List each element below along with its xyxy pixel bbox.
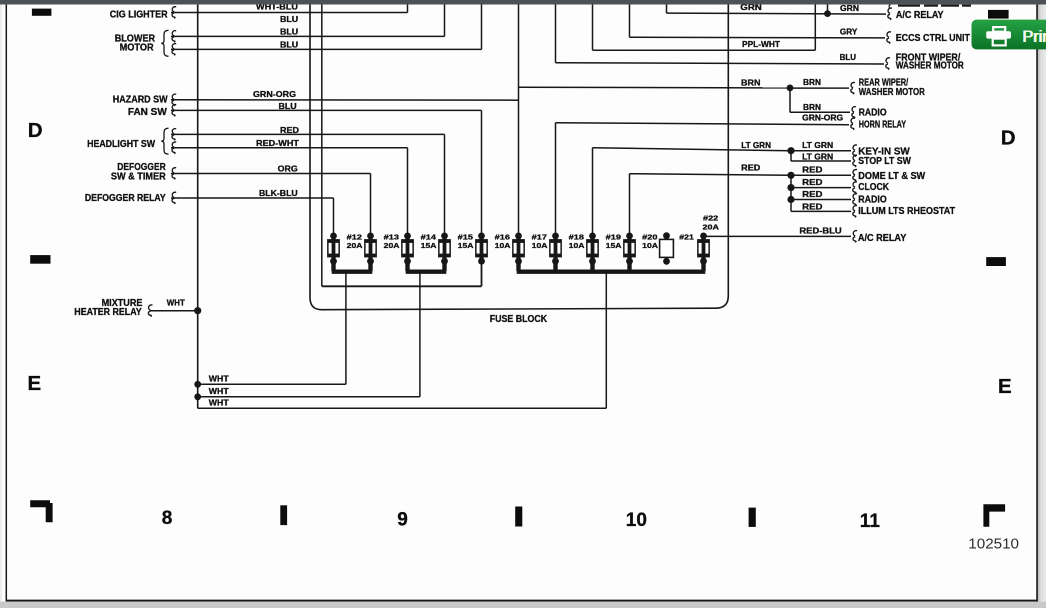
registration mark top left	[32, 9, 52, 16]
scan page left outer gray strip	[0, 5, 2, 609]
junction dot BRN	[787, 85, 794, 92]
svg-text:GRN-ORG: GRN-ORG	[253, 89, 296, 99]
svg-text:LT GRN: LT GRN	[802, 152, 833, 162]
connector hook FAN SW	[172, 105, 176, 117]
wire: LT GRN branch vertical	[790, 151, 792, 161]
wire: BLOWER MOTOR row2 vertical up at x=481.5	[481, 5, 483, 50]
junction dot WHT row2	[194, 393, 201, 400]
wire: MIXTURE HEATER RELAY WHT row	[150, 310, 198, 312]
svg-text:#21: #21	[679, 233, 694, 242]
svg-text:15A: 15A	[606, 241, 622, 250]
connector hook A/C RELAY	[888, 8, 892, 20]
connector hook FRONT WIPER/WASHER MOTOR	[886, 58, 890, 70]
junction dot WHT row1	[194, 381, 201, 388]
wire: BRN branch vertical	[789, 88, 791, 112]
svg-text:RED-WHT: RED-WHT	[256, 138, 299, 148]
svg-text:BRN: BRN	[803, 102, 821, 112]
wire: RADIO BRN row	[790, 111, 850, 113]
svg-text:DEFOGGER RELAY: DEFOGGER RELAY	[85, 193, 166, 204]
fuse #16 symbol	[475, 233, 488, 265]
corner bracket bottom right	[983, 504, 1005, 526]
bus bar fuses #14-#15	[406, 270, 447, 274]
junction dot RED DOME	[787, 172, 794, 179]
wire: A/C RELAY GRN row	[666, 5, 668, 14]
wire: RED branch vertical	[790, 175, 792, 211]
svg-text:RED: RED	[802, 177, 822, 187]
svg-text:GRN-ORG: GRN-ORG	[802, 113, 843, 123]
brace HEADLIGHT SW	[161, 128, 168, 154]
connector hook STOP LT SW	[853, 155, 857, 167]
junction dot LT GRN	[787, 147, 794, 154]
svg-text:RED: RED	[802, 201, 822, 211]
fuse socket #21 (empty)	[660, 232, 674, 264]
brace BLOWER MOTOR	[161, 30, 168, 56]
connector hook A/C RELAY 2	[853, 231, 857, 243]
svg-text:WHT: WHT	[209, 398, 229, 408]
connector hook DEFOGGER RELAY	[172, 192, 176, 204]
svg-text:20A: 20A	[703, 223, 720, 232]
connector hook HORN RELAY	[851, 118, 855, 130]
wire: DEFOGGER RELAY BLK-BLU row	[171, 197, 334, 199]
connector hook BLOWER MOTOR pin 2	[172, 44, 176, 56]
top dark bar	[0, 0, 1046, 5]
svg-text:WASHER MOTOR: WASHER MOTOR	[896, 60, 964, 71]
svg-text:CLOCK: CLOCK	[858, 182, 889, 193]
svg-text:10A: 10A	[532, 241, 548, 250]
wire: WHT row2 vertical up to fuse bus 14-15	[419, 273, 421, 397]
wire: BLK-BLU vertical down to fuse #12	[333, 198, 335, 233]
printer icon	[986, 27, 1011, 45]
wire: BLOWER MOTOR BLU row 2	[171, 48, 482, 50]
svg-text:ORG: ORG	[278, 164, 298, 174]
wire: CIG LIGHTER vertical up at x=407.5	[407, 5, 409, 13]
svg-text:RED: RED	[280, 125, 299, 135]
svg-text:RED-BLU: RED-BLU	[799, 226, 841, 236]
cut-off label fragment top right	[898, 5, 920, 7]
scan page bottom border line	[6, 600, 1038, 602]
svg-text:LT GRN: LT GRN	[741, 140, 771, 150]
svg-text:FAN SW: FAN SW	[128, 107, 168, 118]
svg-text:102510: 102510	[968, 536, 1019, 553]
svg-text:MOTOR: MOTOR	[120, 42, 154, 53]
wire: WHT row3 vertical up to main fuse bus	[605, 273, 607, 408]
wire: DEFOGGER SW & TIMER ORG row	[171, 173, 371, 175]
junction dot RED CLOCK	[787, 184, 794, 191]
wire: WHT row 2 bottom	[198, 396, 420, 398]
fuse #12 symbol	[327, 233, 340, 265]
wire: RED vertical down to fuse #15	[444, 134, 446, 233]
wire: fuse #17 column from top (BRN/GRN-ORG feed)	[518, 5, 520, 234]
wire: STOP LT SW LT GRN row	[791, 160, 851, 162]
svg-text:15A: 15A	[458, 241, 474, 250]
svg-text:BLU: BLU	[280, 27, 298, 37]
wire: FRONT WIPER/WASHER MOTOR BLU row	[555, 5, 557, 63]
svg-text:GRN: GRN	[840, 3, 859, 13]
connector hook DOME LT & SW	[853, 170, 857, 182]
connector hook DEFOGGER SW & TIMER	[172, 168, 176, 180]
fuse block enclosure box	[310, 5, 728, 310]
ruler tick 1	[280, 505, 287, 525]
wire: FAN SW vertical down to fuse #16	[481, 110, 483, 233]
svg-text:RED: RED	[741, 163, 760, 173]
svg-text:E: E	[998, 375, 1012, 398]
svg-text:20A: 20A	[347, 241, 363, 250]
fuse #17 symbol	[512, 233, 525, 265]
svg-text:PPL-WHT: PPL-WHT	[742, 39, 780, 49]
svg-text:#22: #22	[703, 214, 718, 223]
wire: CIG LIGHTER WHT-BLU row	[171, 12, 408, 14]
connector hook MIXTURE HEATER RELAY	[148, 305, 152, 317]
wire: GRN branch vertical from top	[827, 5, 829, 14]
svg-text:GRY: GRY	[840, 27, 858, 37]
svg-text:HEADLIGHT SW: HEADLIGHT SW	[87, 139, 156, 150]
wire: HEADLIGHT SW RED-WHT row	[171, 147, 408, 149]
svg-text:FUSE BLOCK: FUSE BLOCK	[490, 314, 548, 325]
ruler tick 2	[515, 507, 522, 527]
svg-text:LT GRN: LT GRN	[802, 140, 833, 150]
wire: BLOWER MOTOR row1 vertical up at x=444.5	[444, 5, 446, 37]
svg-text:WASHER MOTOR: WASHER MOTOR	[859, 87, 925, 98]
wire: REAR WIPER BRN row	[519, 86, 791, 89]
svg-text:9: 9	[397, 509, 408, 530]
svg-text:RADIO: RADIO	[859, 108, 887, 119]
svg-text:BLU: BLU	[840, 52, 856, 62]
connector hook RADIO 2	[853, 194, 857, 206]
wire: WHT row1 vertical up to fuse bus 12-13	[345, 273, 347, 384]
svg-text:RED: RED	[802, 165, 822, 175]
wire: fuse block feed vertical x=321.8 to fuse #16 bottom loop	[321, 5, 323, 287]
wire: CLOCK RED row	[791, 187, 851, 189]
wire: HAZARD SW GRN-ORG row to fuse #17 column	[171, 99, 519, 102]
wire: BLOWER MOTOR BLU row 1	[171, 35, 445, 37]
wire: PPL-WHT jumper	[592, 5, 594, 51]
connector hook REAR WIPER/WASHER MOTOR	[851, 82, 855, 94]
svg-text:BLU: BLU	[280, 40, 298, 50]
fuse #20 symbol	[623, 233, 636, 265]
wire: FAN SW BLU row	[171, 109, 482, 111]
svg-text:HAZARD SW: HAZARD SW	[113, 95, 168, 106]
fuse #19 symbol	[586, 233, 599, 265]
connector hook HEADLIGHT SW pin 2	[172, 142, 176, 154]
svg-text:ECCS CTRL UNIT: ECCS CTRL UNIT	[896, 33, 970, 44]
svg-text:11: 11	[860, 511, 881, 532]
svg-text:WHT: WHT	[167, 298, 185, 308]
svg-text:WHT: WHT	[209, 386, 229, 396]
svg-text:E: E	[28, 372, 42, 395]
svg-text:A/C RELAY: A/C RELAY	[858, 233, 907, 244]
svg-text:CIG LIGHTER: CIG LIGHTER	[110, 9, 168, 20]
connector hook ECCS CTRL UNIT	[887, 32, 891, 44]
wire: WHT row 3 bottom	[198, 407, 607, 409]
corner bracket bottom left	[30, 500, 52, 522]
ruler tick 3	[749, 508, 756, 527]
connector hook CIG LIGHTER	[172, 7, 176, 19]
svg-text:DOME LT & SW: DOME LT & SW	[858, 171, 926, 182]
svg-text:10A: 10A	[642, 241, 658, 250]
bus bar fuses #12-#13	[332, 270, 373, 274]
registration mark mid left	[30, 255, 50, 264]
svg-text:BLU: BLU	[279, 101, 297, 111]
fuse #15 symbol	[438, 233, 451, 265]
wire: RED-WHT vertical down to fuse #14	[407, 148, 409, 233]
svg-text:BLU: BLU	[280, 14, 298, 24]
scan page right border line	[1036, 5, 1038, 602]
wire: KEY-IN SW LT GRN row from fuse #19	[592, 148, 594, 234]
svg-text:WHT: WHT	[209, 374, 229, 384]
connector hook HEADLIGHT SW pin 1	[172, 129, 176, 141]
svg-text:Print: Print	[1023, 28, 1046, 46]
svg-text:HORN RELAY: HORN RELAY	[859, 119, 907, 130]
fuse #18 symbol	[549, 233, 562, 265]
wire: HEADLIGHT SW RED row	[171, 133, 445, 135]
svg-text:BLK-BLU: BLK-BLU	[259, 188, 298, 198]
wire: left main vertical bus (WHT feed)	[197, 5, 199, 409]
junction dot GRN branch	[824, 10, 831, 17]
junction dot MIXTURE WHT at main vertical	[194, 307, 201, 314]
svg-text:20A: 20A	[384, 241, 400, 250]
scan page left border line	[5, 5, 7, 601]
fuse #14 symbol	[401, 233, 414, 265]
svg-text:D: D	[28, 119, 43, 142]
svg-text:BRN: BRN	[803, 77, 821, 87]
connector hook CLOCK	[853, 182, 857, 194]
connector hook ILLUM LTS RHEOSTAT	[853, 206, 857, 218]
wire: fuse #16 bottom loop	[481, 261, 483, 286]
junction dot RED RADIO	[787, 196, 794, 203]
fuse #22 symbol	[697, 233, 710, 265]
svg-text:10A: 10A	[495, 241, 511, 250]
svg-text:RADIO: RADIO	[858, 195, 887, 206]
scan bottom gray band	[0, 602, 1046, 608]
svg-text:D: D	[1001, 126, 1016, 149]
svg-text:8: 8	[162, 508, 173, 529]
fuse #13 symbol	[364, 233, 377, 265]
svg-text:RED: RED	[802, 189, 822, 199]
connector hook RADIO 1	[852, 107, 856, 119]
svg-text:SW & TIMER: SW & TIMER	[111, 171, 166, 182]
svg-text:10A: 10A	[569, 241, 585, 250]
svg-text:A/C RELAY: A/C RELAY	[896, 10, 944, 21]
wire: WHT row 1 bottom	[198, 383, 346, 385]
connector hook BLOWER MOTOR pin 1	[172, 31, 176, 43]
wire: RADIO RED row	[791, 199, 851, 201]
wire: ILLUM LTS RHEOSTAT RED row	[791, 210, 851, 212]
main bus bar fuses #17-#22	[517, 270, 706, 274]
registration mark mid right	[986, 257, 1006, 266]
wire: HORN RELAY GRN-ORG row	[555, 123, 557, 234]
svg-text:10: 10	[626, 510, 647, 531]
registration mark top right	[988, 10, 1009, 19]
svg-text:ILLUM LTS RHEOSTAT: ILLUM LTS RHEOSTAT	[858, 206, 955, 217]
wire: ORG vertical down to fuse #13	[370, 174, 372, 234]
svg-text:15A: 15A	[421, 241, 437, 250]
wire: A/C RELAY RED-BLU row from fuse #22	[704, 235, 852, 237]
svg-text:STOP LT SW: STOP LT SW	[858, 156, 911, 167]
svg-text:HEATER RELAY: HEATER RELAY	[74, 307, 142, 318]
connector hook KEY-IN SW	[853, 145, 857, 157]
wire: ECCS CTRL UNIT GRY row	[629, 5, 631, 38]
connector hook HAZARD SW	[172, 94, 176, 106]
wire: DOME LT RED row from fuse #20	[629, 174, 631, 234]
svg-text:BRN: BRN	[741, 77, 761, 87]
